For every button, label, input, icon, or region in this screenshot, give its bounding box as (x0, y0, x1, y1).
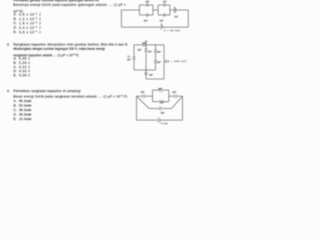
wire: group 2 left vertical (157, 5, 160, 15)
node A terminal tick (145, 40, 148, 43)
svg-text:1μF: 1μF (174, 16, 179, 18)
wire: bottom return (right part) (163, 26, 188, 29)
wire: series capacitor to right vertical (176, 9, 188, 12)
capacitor 4uF (right branch upper) (154, 50, 157, 52)
svg-text:1μF: 1μF (142, 43, 147, 45)
svg-text:2μF: 2μF (144, 20, 149, 22)
wire: left feed from outer loop to parallel group 1 (121, 9, 139, 12)
capacitor 3uF (left branch) (133, 57, 136, 59)
capacitor 4uF (top rail right) (175, 94, 177, 98)
wire: bottom rail right of battery (161, 119, 183, 122)
wire: bottom return (left part) (121, 26, 160, 29)
wire: outer right vertical (187, 10, 190, 27)
Question 4 text block (7, 89, 10, 93)
svg-text:1μF: 1μF (160, 20, 165, 22)
wire: right vertical of rectangle (154, 45, 157, 70)
svg-text:2μF: 2μF (161, 102, 166, 104)
wire: top extension to source branch (156, 44, 165, 47)
capacitor 2uF (top edge) (143, 43, 145, 47)
wire: left vertical of rectangle (133, 45, 136, 70)
wire: from group 2 to series capacitor (170, 9, 174, 12)
svg-text:1μF: 1μF (163, 1, 168, 3)
battery E 60 volt (160, 23, 163, 29)
wire: bottom extension from stub to source branch (146, 78, 164, 81)
wire: box left vertical (151, 90, 154, 102)
svg-text:4μF: 4μF (157, 62, 162, 64)
wire: group 2 right vertical (169, 5, 172, 15)
wire: top edge with capacitor gap (134, 44, 156, 47)
capacitor 4uF (right branch lower) (154, 61, 157, 63)
wire: bottom edge of rectangle (134, 69, 156, 72)
wire: top rail into parallel box (146, 95, 153, 98)
svg-text:4μF: 4μF (172, 92, 177, 94)
svg-text:2μF: 2μF (138, 50, 143, 52)
svg-text:4μF: 4μF (158, 89, 163, 91)
wire: bottom stub with capacitor gap (145, 70, 148, 79)
capacitor C2 2uF (bottom branch of group 1) (140, 14, 154, 17)
svg-text:E = 60 volt: E = 60 volt (164, 29, 180, 32)
wire: middle rail with capacitor gap (149, 107, 171, 110)
wire: top rail right segment (178, 95, 183, 98)
capacitor 2uF (box bottom branch) (153, 100, 169, 104)
wire: outer left vertical (120, 10, 123, 27)
svg-text:3μF: 3μF (149, 75, 154, 77)
capacitor 4uF (box top branch) (153, 88, 169, 92)
battery V 200 volt (165, 60, 168, 64)
capacitor C4 1uF (bottom branch of group 2) (158, 14, 170, 17)
svg-text:3μF: 3μF (127, 59, 132, 61)
svg-text:3 volt: 3 volt (161, 122, 168, 125)
capacitor 2uF (middle branch) (145, 49, 148, 51)
svg-text:4μF: 4μF (157, 51, 162, 53)
battery 3 volt (157, 118, 160, 123)
wire: middle vertical (145, 45, 148, 70)
wire: left diagonal to middle rail (137, 96, 150, 108)
capacitor C3 2uF (top branch of group 2) (158, 4, 170, 7)
svg-text:2μF: 2μF (146, 1, 151, 3)
capacitor C1 2uF (top branch of group 1) (140, 4, 154, 7)
wire: outer left vertical (135, 96, 138, 120)
wire: outer right vertical (181, 96, 184, 120)
svg-text:2μF: 2μF (161, 113, 166, 115)
wire: top rail out of box (169, 95, 174, 98)
wire: right diagonal to middle rail (172, 96, 183, 108)
wire: group 1 right vertical (152, 5, 155, 15)
svg-text:C2: C2 (128, 56, 131, 59)
wire: top rail left segment (137, 95, 143, 98)
wire: box right vertical (168, 90, 171, 102)
wire: stub from node A down to top wire (145, 41, 148, 45)
Question 3 text block (7, 42, 10, 46)
capacitor 2uF (middle rail) (160, 107, 162, 111)
wire: group 1 left vertical (138, 5, 141, 15)
wire: stub to battery (164, 60, 166, 63)
wire: bottom rail left of battery (137, 119, 158, 122)
wire: connector between group 1 and group 2 (153, 9, 158, 12)
capacitor C5 1uF (series, right) (175, 7, 176, 13)
capacitor 3uF (bottom stub) (145, 73, 148, 74)
wire: source branch right vertical (163, 45, 166, 79)
svg-text:V = 200 volt: V = 200 volt (168, 60, 187, 63)
Question 2 text block (top cut off) (13, 0, 99, 2)
capacitor 4uF (top rail left) (143, 94, 145, 98)
svg-text:4μF: 4μF (141, 92, 146, 94)
svg-text:2μF: 2μF (148, 51, 153, 53)
